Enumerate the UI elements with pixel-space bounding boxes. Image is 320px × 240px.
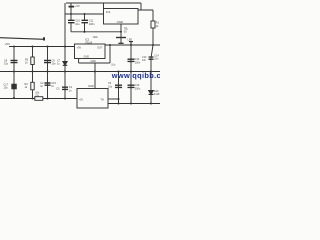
svg-text:100n: 100n bbox=[135, 61, 141, 64]
label IC1 GND pin bbox=[117, 20, 123, 24]
svg-text:+5V: +5V bbox=[77, 46, 82, 49]
wire gnd return up to output bbox=[109, 45, 111, 63]
label D1 bbox=[154, 90, 160, 96]
capacitor C12 bbox=[128, 59, 135, 61]
wire IC1 input bbox=[65, 13, 104, 15]
wire stub left edge bbox=[0, 38, 44, 40]
label C9 bbox=[52, 59, 57, 65]
node output-x153 bbox=[152, 44, 154, 46]
label L1 bbox=[128, 39, 133, 42]
wire vertical x47 upper bbox=[47, 47, 49, 72]
label C15b bbox=[69, 86, 73, 92]
label IC1 bbox=[106, 10, 111, 14]
regulator IC2 box bbox=[75, 44, 106, 59]
node rail-x47 bbox=[46, 45, 48, 47]
wire bottom rail left bbox=[0, 98, 35, 100]
label IC2 in pin bbox=[77, 46, 82, 49]
label R16 bbox=[35, 92, 40, 98]
capacitor C14L polarized bbox=[12, 84, 16, 89]
label C1 value bbox=[75, 19, 80, 26]
label near corner bbox=[111, 64, 116, 67]
node brail2-x151 bbox=[150, 102, 152, 104]
svg-text:200u: 200u bbox=[135, 87, 141, 90]
svg-text:GND: GND bbox=[117, 20, 123, 24]
node rail2-x118 bbox=[117, 70, 119, 72]
ground symbol bbox=[116, 37, 126, 39]
wire vertical x131 lower bbox=[130, 72, 132, 104]
wire vertical x131 mid bbox=[130, 45, 132, 72]
label +5V top bbox=[75, 4, 80, 8]
svg-text:10u: 10u bbox=[108, 85, 113, 88]
wire vertical x30 lower bbox=[32, 72, 34, 83]
node rail2-x151 bbox=[150, 70, 152, 72]
node rail-x32 bbox=[31, 45, 33, 47]
svg-text:10n: 10n bbox=[142, 59, 147, 62]
svg-text:GND: GND bbox=[88, 84, 94, 88]
node gnd line to stub bbox=[120, 31, 122, 33]
svg-text:GND: GND bbox=[84, 56, 90, 59]
node brail-x65 bbox=[64, 97, 66, 99]
wire IC2 gnd pin down bbox=[78, 59, 80, 64]
label C13 bbox=[142, 56, 147, 62]
wire gnd collector line bbox=[71, 31, 121, 33]
svg-text:10u: 10u bbox=[4, 63, 9, 66]
capacitor C9 bbox=[44, 60, 51, 62]
wire C1 to gnd line bbox=[70, 23, 72, 32]
capacitor C16a bbox=[115, 85, 122, 87]
svg-text:100n: 100n bbox=[89, 22, 95, 26]
node brail-x32 bbox=[31, 97, 33, 99]
wire R4 down bbox=[32, 90, 34, 98]
wire IC1 gnd stub bbox=[120, 24, 122, 38]
node rail2-x14 bbox=[13, 70, 15, 72]
label C14 bbox=[154, 55, 159, 61]
resistor R16 horizontal bbox=[35, 97, 43, 101]
capacitor C15b bbox=[62, 87, 68, 89]
label C15b left bbox=[56, 88, 60, 91]
capacitor C16b bbox=[128, 85, 135, 87]
wire vertical x32 upper bbox=[32, 47, 34, 58]
wire IC3 output right bbox=[108, 98, 119, 100]
wire IC1 output bbox=[138, 10, 153, 21]
label above IC3 bbox=[88, 84, 94, 88]
wire stub x95 to rail bbox=[94, 63, 96, 72]
svg-text:IC1: IC1 bbox=[106, 10, 111, 14]
svg-text:OUT: OUT bbox=[97, 46, 103, 49]
wire vertical x14 lower bbox=[13, 72, 15, 98]
node brail2-x131 bbox=[130, 102, 132, 104]
node B junction tick bbox=[69, 6, 75, 8]
wire gnd return line bbox=[79, 62, 110, 64]
label C12 bbox=[135, 58, 141, 64]
wire vertical x14 upper bbox=[13, 47, 15, 72]
svg-text:10u: 10u bbox=[4, 87, 9, 90]
wire R1 down bbox=[152, 28, 154, 45]
svg-text:GND: GND bbox=[91, 60, 97, 63]
label C8 bbox=[4, 59, 9, 65]
label C15a left bbox=[40, 82, 44, 88]
svg-text:78L05: 78L05 bbox=[85, 41, 93, 45]
label IC2 bbox=[85, 38, 93, 45]
capacitor C1 bbox=[68, 20, 75, 22]
node output-x131 bbox=[130, 44, 132, 46]
node rail-x14 bbox=[13, 45, 15, 47]
svg-text:LED: LED bbox=[128, 39, 133, 42]
node rail2-x32 bbox=[31, 70, 33, 72]
wire vertical x47 lower bbox=[47, 72, 49, 98]
label +5V bbox=[5, 42, 10, 46]
node rail2-x65 bbox=[64, 70, 66, 72]
svg-text:TH: TH bbox=[101, 99, 105, 102]
node rail2-x47 bbox=[46, 70, 48, 72]
inductor L1 stub bbox=[129, 42, 133, 45]
node stub end tick bbox=[43, 37, 45, 40]
capacitor C8 bbox=[11, 60, 18, 62]
svg-text:+5V: +5V bbox=[75, 4, 80, 8]
wire R3 down bbox=[32, 65, 34, 72]
oscillator IC3 box bbox=[77, 89, 108, 109]
node gnd-C bbox=[83, 31, 85, 33]
wire vertical x151 lower bbox=[150, 72, 152, 104]
label IC3 right pin bbox=[101, 99, 105, 102]
node rail2-x95 bbox=[94, 70, 96, 72]
label R1 bbox=[156, 22, 160, 28]
label R3 bbox=[25, 58, 29, 64]
label IC2 gnd bbox=[84, 56, 90, 59]
node rail2-x131 bbox=[130, 70, 132, 72]
svg-text:10u: 10u bbox=[111, 64, 116, 67]
svg-text:10u: 10u bbox=[75, 22, 80, 26]
wire vertical x151 mid bbox=[151, 45, 153, 72]
node rail-A bbox=[64, 45, 66, 47]
node IC3out-x118 bbox=[118, 98, 120, 100]
svg-text:10n: 10n bbox=[52, 63, 57, 66]
op-amp IC1 box bbox=[104, 9, 139, 25]
wire C2 to gnd line bbox=[84, 23, 86, 32]
capacitor C15a bbox=[45, 83, 51, 85]
svg-text:www.qqibb.c: www.qqibb.c bbox=[111, 71, 160, 80]
wire +5V rail left bbox=[9, 46, 75, 48]
diode D2 on bus A bbox=[63, 62, 67, 66]
node output-x110 bbox=[109, 44, 111, 46]
label R4 bbox=[25, 83, 29, 89]
resistor R3 bbox=[31, 57, 34, 65]
label C2 value bbox=[89, 19, 95, 26]
node brail-x47 bbox=[46, 97, 48, 99]
label IC2 out pin bbox=[97, 46, 103, 49]
node brail2-x118 bbox=[117, 102, 119, 104]
label 100n mid bbox=[93, 36, 99, 39]
label C16a bbox=[108, 82, 113, 88]
label C15a bbox=[51, 82, 56, 88]
diode D1 bbox=[149, 91, 154, 95]
wire vertical x65 lower bbox=[64, 72, 66, 98]
label stub GND bbox=[91, 60, 97, 63]
wire top rail corner down bbox=[140, 3, 142, 10]
label D2 bbox=[57, 59, 61, 65]
wire stub x95 to IC3 bbox=[94, 72, 96, 89]
wire W1 to IC1 corner bbox=[103, 3, 105, 9]
svg-text:+2V: +2V bbox=[79, 99, 84, 102]
wire vertical A left bus bbox=[64, 3, 66, 72]
resistor R4 bbox=[31, 82, 34, 90]
wire vertical x118 lower bbox=[118, 72, 120, 104]
svg-text:+5V: +5V bbox=[5, 42, 10, 46]
svg-text:10n: 10n bbox=[154, 58, 159, 61]
wire vertical C bbox=[84, 14, 86, 20]
label IC1 type bbox=[124, 27, 129, 34]
node W2-B bbox=[70, 13, 72, 15]
node W2-C bbox=[84, 13, 86, 15]
resistor R1 bbox=[151, 21, 155, 28]
node brail-x14 bbox=[13, 97, 15, 99]
capacitor C2 bbox=[82, 20, 89, 22]
label IC3 left pin bbox=[79, 99, 84, 102]
wire bottom rail right bbox=[108, 103, 160, 105]
wire vertical B bbox=[70, 3, 72, 20]
label C14L bbox=[4, 83, 9, 89]
wire main ground rail bbox=[0, 71, 160, 73]
wire bottom rail to IC3 bbox=[43, 98, 77, 100]
svg-text:4148: 4148 bbox=[154, 93, 160, 96]
capacitor C13 bbox=[149, 57, 154, 59]
wire IC2 output rail right bbox=[105, 44, 160, 46]
wire top rail +V bbox=[66, 2, 141, 4]
label C16b bbox=[135, 84, 141, 90]
svg-text:100n: 100n bbox=[93, 36, 99, 39]
